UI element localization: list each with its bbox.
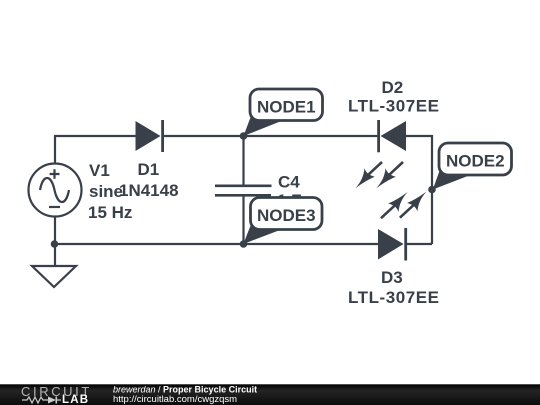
node ground junction dot xyxy=(51,240,59,248)
NODE1 label box xyxy=(250,89,323,121)
node NODE2 junction dot xyxy=(428,186,436,194)
svg-text:LTL-307EE: LTL-307EE xyxy=(348,97,440,116)
NODE2 label box xyxy=(439,143,512,175)
wire from D1 cathode to node NODE1 and on to D2 xyxy=(163,135,379,137)
svg-text:C4: C4 xyxy=(278,173,300,192)
wire source bottom to ground xyxy=(54,216,56,266)
NODE3 flag pointer xyxy=(243,225,282,245)
ground xyxy=(32,266,76,287)
svg-text:NODE3: NODE3 xyxy=(257,206,316,225)
svg-text:http://circuitlab.com/cwgzqsm: http://circuitlab.com/cwgzqsm xyxy=(113,394,237,405)
diode D1 xyxy=(136,120,165,152)
svg-text:sine: sine xyxy=(89,182,123,201)
footer bar xyxy=(0,384,540,405)
capacitor C4 xyxy=(215,186,272,196)
voltage source V1 xyxy=(29,164,82,217)
wire capacitor branch vertical xyxy=(242,136,244,244)
svg-text:V1: V1 xyxy=(89,161,110,180)
svg-text:D2: D2 xyxy=(382,78,404,97)
svg-text:D3: D3 xyxy=(381,268,403,287)
svg-text:LTL-307EE: LTL-307EE xyxy=(348,288,440,307)
node NODE1 junction dot xyxy=(240,132,248,140)
svg-text:15 Hz: 15 Hz xyxy=(88,203,132,222)
LED D3 emission arrows xyxy=(381,192,427,219)
svg-text:1N4148: 1N4148 xyxy=(119,181,179,200)
wire from D3 cathode to right corner xyxy=(406,243,433,245)
node NODE3 junction dot xyxy=(240,240,248,248)
svg-text:NODE2: NODE2 xyxy=(446,151,505,170)
wire top rail from source to D1 xyxy=(55,136,136,164)
svg-text:D1: D1 xyxy=(138,160,160,179)
svg-text:LAB: LAB xyxy=(62,394,89,405)
wire bottom rail from source to D3 xyxy=(54,243,378,245)
svg-text:brewerdan / Proper Bicycle Cir: brewerdan / Proper Bicycle Circuit xyxy=(113,385,257,395)
NODE2 flag pointer xyxy=(433,170,471,190)
LED D2 xyxy=(377,120,406,152)
NODE3 label box xyxy=(251,198,323,230)
LED D2 emission arrows xyxy=(355,162,403,188)
wire from D2 to right corner and down right rail xyxy=(406,136,432,244)
LED D3 xyxy=(378,228,407,261)
svg-text:NODE1: NODE1 xyxy=(257,98,316,117)
footer logo resistor + diode symbol xyxy=(22,397,48,403)
NODE1 flag pointer xyxy=(244,116,283,136)
